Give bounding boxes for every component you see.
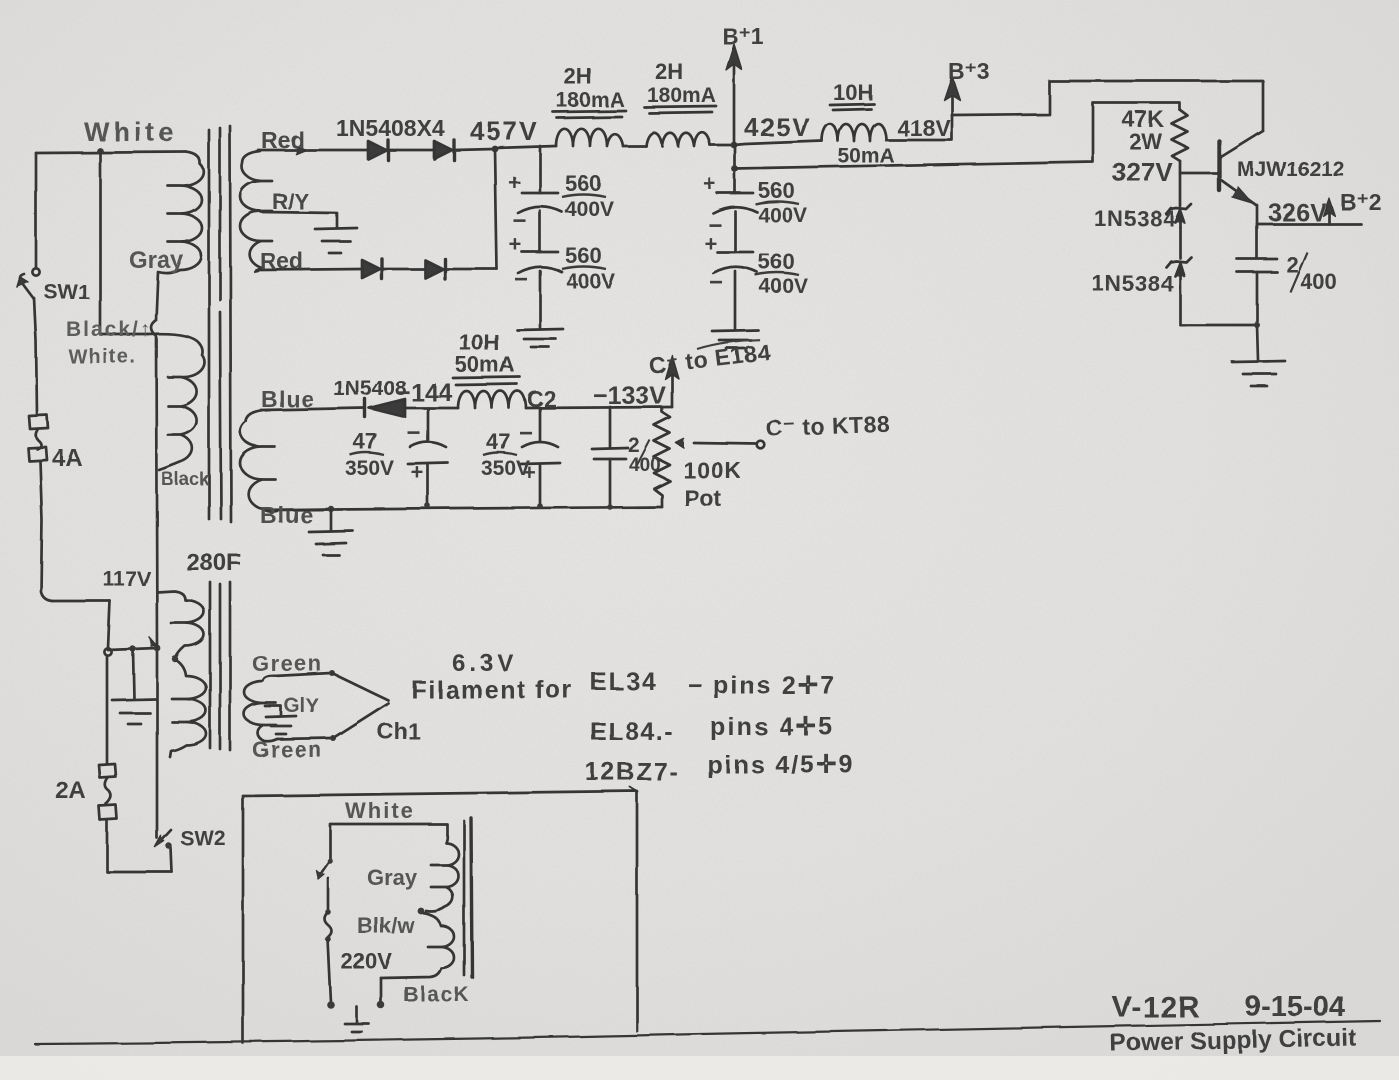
node: cap junctions on bias rails bbox=[425, 503, 431, 509]
svg-text:400V: 400V bbox=[759, 275, 808, 298]
svg-text:−133V: −133V bbox=[593, 382, 666, 410]
svg-text:GlY: GlY bbox=[284, 695, 319, 717]
svg-text:Black/↑: Black/↑ bbox=[66, 318, 152, 341]
svg-text:SW1: SW1 bbox=[44, 281, 90, 304]
svg-text:400V: 400V bbox=[565, 198, 614, 221]
node: junction cap/zener bbox=[1254, 322, 1260, 328]
svg-text:560: 560 bbox=[758, 249, 795, 274]
svg-text:Green: Green bbox=[252, 737, 323, 762]
svg-text:Red: Red bbox=[261, 127, 304, 153]
svg-text:327V: 327V bbox=[1112, 157, 1173, 187]
svg-text:50mA: 50mA bbox=[455, 352, 515, 377]
ground: first filter ground bbox=[517, 329, 563, 330]
ground: box ground bbox=[356, 1007, 359, 1023]
wire: bias bottom rail bbox=[267, 507, 662, 510]
svg-text:+: + bbox=[703, 171, 716, 196]
svg-text:V-12R: V-12R bbox=[1112, 991, 1200, 1024]
fuse: box fuse squiggle bbox=[325, 909, 331, 915]
svg-text:+: + bbox=[704, 231, 717, 256]
node: open terminal bbox=[104, 648, 111, 655]
svg-text:9-15-04: 9-15-04 bbox=[1245, 991, 1345, 1023]
wire: SW2 contact riser bbox=[171, 848, 172, 872]
capacitor C7 2/400 (bias) bbox=[609, 407, 612, 447]
wire: page bottom frame line bbox=[35, 1021, 1380, 1044]
svg-text:Gray: Gray bbox=[367, 865, 418, 890]
wire: cap string to ground bbox=[734, 271, 737, 329]
wire: R/Y center tap bbox=[261, 212, 337, 228]
winding: box primary lower (Blkw-Black) bbox=[381, 913, 454, 978]
wire: down to regulator ground bbox=[1257, 325, 1258, 360]
capacitor C3b 560/400V bottom bbox=[734, 211, 737, 252]
svg-text:−: − bbox=[514, 266, 528, 293]
node: 457V junction bbox=[492, 146, 499, 153]
ground: filament center tap ground bbox=[266, 716, 296, 717]
wire: down to plug circle bbox=[108, 601, 110, 648]
svg-text:BlacK: BlacK bbox=[403, 983, 470, 1006]
wire: bias rail bbox=[405, 407, 458, 410]
box: 220V wiring inset frame bbox=[243, 791, 637, 1043]
svg-text:6.3V: 6.3V bbox=[452, 650, 517, 677]
wire: box top wire White bbox=[330, 824, 447, 858]
svg-text:47: 47 bbox=[353, 429, 377, 454]
winding: box primary upper (White-Gray) bbox=[426, 835, 459, 912]
svg-text:4A: 4A bbox=[52, 445, 83, 472]
wire: resistor to base node bbox=[1179, 161, 1182, 206]
svg-text:B⁺1: B⁺1 bbox=[722, 23, 764, 49]
wire: G/Y center tap bbox=[265, 706, 281, 715]
switch: box switch contact bbox=[327, 858, 333, 864]
svg-text:pins 4✛5: pins 4✛5 bbox=[710, 713, 835, 741]
node: box right terminal bbox=[377, 1001, 385, 1009]
svg-text:560: 560 bbox=[758, 178, 795, 203]
wire: Black lead down bbox=[380, 978, 383, 1003]
svg-text:B⁺2: B⁺2 bbox=[1340, 189, 1382, 215]
svg-text:Blue: Blue bbox=[260, 502, 314, 528]
svg-text:−: − bbox=[513, 208, 527, 235]
wire: 117V horizontal bbox=[52, 600, 110, 603]
ground: second filter ground bbox=[712, 330, 758, 331]
wire: Blue upper lead bbox=[262, 408, 365, 410]
node B+2 arrow bbox=[1328, 208, 1331, 224]
potentiometer R2 100K bbox=[654, 407, 670, 507]
svg-text:Blue: Blue bbox=[261, 386, 315, 412]
svg-text:SW2: SW2 bbox=[180, 827, 226, 850]
svg-text:Red: Red bbox=[260, 248, 303, 274]
wire: zener bottom to emitter leg bbox=[1180, 292, 1257, 325]
wire: pot wiper from C- KT88 bbox=[694, 443, 757, 444]
wire: bias rail C2 to pot bbox=[526, 407, 672, 408]
transistor Q1 MJW16212 base bar bbox=[1217, 141, 1221, 190]
svg-text:Green: Green bbox=[252, 651, 323, 676]
svg-text:47: 47 bbox=[486, 429, 510, 454]
wire: fuse 2A to bottom rail bbox=[106, 820, 109, 871]
wire: switch to fuse bbox=[327, 878, 330, 910]
winding: bias secondary (Blue-Blue) bbox=[240, 410, 277, 512]
node: junction at 117V tap bbox=[154, 645, 161, 652]
wire: Red top lead to diodes bbox=[258, 149, 368, 152]
winding: primary upper (White-Gray) bbox=[156, 152, 204, 320]
wire: B+2 output line bbox=[1257, 223, 1361, 226]
svg-text:EL34: EL34 bbox=[590, 668, 658, 696]
svg-text:−: − bbox=[709, 269, 723, 296]
svg-text:White.: White. bbox=[68, 346, 137, 368]
svg-text:Blk/w: Blk/w bbox=[357, 913, 415, 938]
wire: chevron to Ch1 top bbox=[332, 673, 388, 700]
svg-text:560: 560 bbox=[565, 243, 602, 268]
inductor L3 10H 50mA bbox=[822, 124, 886, 141]
wire: bottom rail to SW2 bbox=[107, 871, 172, 874]
node: tap junction to regulator bbox=[732, 166, 739, 173]
svg-text:Pot: Pot bbox=[684, 485, 721, 511]
capacitor C3a 560/400V top bbox=[734, 145, 737, 193]
wire: White line from left rail to primary winding bbox=[36, 152, 186, 153]
svg-text:B⁺3: B⁺3 bbox=[948, 58, 990, 84]
wire: base connection bbox=[1180, 172, 1218, 175]
node: box left terminal bbox=[327, 1001, 335, 1009]
zener diode Z1 1N5384 bbox=[1170, 204, 1191, 209]
wire: to 425V node bbox=[710, 144, 734, 147]
winding: filament primary lower bbox=[170, 660, 206, 757]
svg-text:400V: 400V bbox=[566, 270, 615, 293]
svg-text:− pins 2✛7: − pins 2✛7 bbox=[688, 672, 837, 700]
ground: regulator ground bbox=[1232, 361, 1285, 362]
switch SW2 contact dot bbox=[166, 843, 172, 849]
wire: Green bottom lead bbox=[277, 738, 332, 739]
node: C- KT88 terminal bbox=[757, 441, 765, 449]
svg-text:180mA: 180mA bbox=[556, 89, 625, 112]
diode D2 1N5408 bbox=[434, 141, 452, 159]
svg-text:−: − bbox=[407, 420, 421, 447]
svg-text:2H: 2H bbox=[564, 64, 592, 89]
switch SW2 blade bbox=[159, 830, 171, 843]
svg-text:Power Supply Circuit: Power Supply Circuit bbox=[1110, 1024, 1357, 1057]
wire: gray/black vertical down to SW2 with junction bbox=[156, 650, 159, 838]
svg-text:2: 2 bbox=[1286, 252, 1298, 277]
winding: primary lower (BlackWhite-Black) bbox=[148, 334, 205, 470]
wire: Black/White horizontal to primary lower winding bbox=[100, 333, 148, 336]
svg-text:2A: 2A bbox=[55, 777, 86, 804]
svg-text:50mA: 50mA bbox=[838, 145, 895, 168]
wire: terminal down to fuse 2A bbox=[106, 656, 109, 763]
inductor L4 10H 50mA (bias) bbox=[458, 391, 526, 408]
svg-text:Filament for: Filament for bbox=[411, 676, 573, 704]
svg-text:pins 4/5✛9: pins 4/5✛9 bbox=[707, 751, 855, 779]
diode D3 1N5408 bbox=[362, 260, 380, 278]
node B+1 arrow bbox=[726, 44, 742, 70]
svg-text:350V: 350V bbox=[345, 457, 394, 480]
wire: 457V node down to lower diode output bbox=[495, 149, 497, 269]
svg-text:MJW16212: MJW16212 bbox=[1237, 158, 1344, 181]
svg-text:117V: 117V bbox=[103, 568, 151, 591]
inductor L2 2H 180mA bbox=[646, 132, 710, 146]
svg-text:Gray: Gray bbox=[129, 247, 184, 274]
transistor Q1 emitter with arrow bbox=[1221, 180, 1256, 205]
switch SW1 contact bbox=[32, 268, 39, 275]
svg-text:White: White bbox=[345, 798, 415, 823]
svg-text:400V: 400V bbox=[758, 204, 807, 227]
transformer T2 core bbox=[463, 821, 466, 975]
wire: Blue lower lead to bias rail bbox=[263, 509, 331, 510]
capacitor C5 47/350V bbox=[427, 408, 430, 441]
capacitor C1a 560/400V top bbox=[539, 146, 542, 193]
svg-text:560: 560 bbox=[565, 171, 602, 196]
transformer T1 core lower section bbox=[209, 582, 212, 748]
capacitor line bypass to ground bbox=[130, 646, 136, 652]
wire: SW1 to fuse F1 bbox=[34, 298, 37, 414]
fuse F1 4A body bbox=[29, 415, 48, 429]
ground: line filter ground bbox=[112, 699, 156, 700]
wire: long feed to 47K resistor bbox=[735, 103, 1180, 169]
svg-text:418V: 418V bbox=[897, 115, 951, 141]
capacitor C4 2/400 bbox=[1256, 224, 1259, 258]
switch SW1 blade bbox=[20, 274, 34, 299]
svg-text:457V: 457V bbox=[470, 116, 539, 146]
wire: between zeners bbox=[1179, 227, 1182, 258]
svg-text:+: + bbox=[508, 170, 521, 195]
winding: filament primary upper bbox=[157, 591, 204, 657]
svg-text:R/Y: R/Y bbox=[272, 189, 309, 214]
node: White junction bbox=[97, 148, 104, 155]
wire: 457V rail bbox=[495, 146, 556, 148]
svg-text:+: + bbox=[523, 460, 536, 485]
wire: Black/White vertical from White node bbox=[99, 151, 102, 334]
svg-text:425V: 425V bbox=[744, 112, 811, 142]
svg-text:100K: 100K bbox=[683, 457, 742, 483]
svg-text:2: 2 bbox=[628, 434, 640, 457]
wire: chevron to Ch1 bottom bbox=[333, 703, 388, 738]
node: 425V junction bbox=[731, 142, 738, 149]
wire: fuse 4A down to 117V corner bbox=[40, 461, 52, 601]
diode D5 1N5408 (bias, pointing left) bbox=[363, 399, 366, 417]
svg-text:280F: 280F bbox=[186, 549, 241, 576]
ground: R/Y center tap ground bbox=[315, 228, 357, 229]
svg-text:−144: −144 bbox=[396, 379, 452, 407]
node: bias ground tap bbox=[328, 506, 334, 512]
wire: B+3 branch going right and up to collector bbox=[952, 81, 1263, 131]
wire: emitter down to B+2 line bbox=[1256, 205, 1259, 224]
wire: 418V rail bbox=[886, 139, 951, 142]
node: filament primary tap bbox=[172, 656, 178, 662]
ground: bias ground bbox=[309, 531, 353, 532]
wire: Gray hop over Black/White bbox=[151, 320, 157, 648]
wire: left rail down to SW1 bbox=[35, 153, 38, 267]
svg-text:220V: 220V bbox=[341, 949, 393, 974]
svg-text:10H: 10H bbox=[833, 80, 873, 105]
svg-text:+: + bbox=[411, 460, 424, 485]
svg-text:Ch1: Ch1 bbox=[377, 718, 421, 744]
transformer T1 core bbox=[208, 130, 211, 519]
capacitor C1b 560/400V bottom bbox=[539, 211, 542, 252]
svg-text:1N5384: 1N5384 bbox=[1092, 271, 1174, 296]
diode D4 1N5408 bbox=[425, 260, 443, 278]
svg-text:12BZ7-: 12BZ7- bbox=[585, 758, 679, 786]
svg-text:180mA: 180mA bbox=[647, 84, 716, 107]
wire: B+1 riser bbox=[733, 66, 736, 145]
winding: HV secondary upper (Red / R-Y) bbox=[240, 151, 272, 272]
svg-text:1N5384: 1N5384 bbox=[1094, 206, 1176, 231]
wire: ground stem bbox=[330, 509, 333, 530]
diode D1 1N5408 bbox=[368, 141, 386, 159]
svg-text:2H: 2H bbox=[655, 59, 683, 84]
wire: Red bottom lead to diodes bbox=[258, 269, 362, 270]
fuse F2 2A body bbox=[99, 764, 116, 778]
svg-text:326V: 326V bbox=[1268, 199, 1327, 227]
zener diode Z2 1N5384 bbox=[1170, 257, 1191, 262]
svg-text:Black: Black bbox=[161, 469, 210, 489]
resistor R1 47K 2W bbox=[1172, 110, 1188, 161]
inductor L1 2H 180mA bbox=[556, 129, 623, 146]
svg-text:400: 400 bbox=[629, 455, 661, 476]
svg-text:EL84.-: EL84.- bbox=[590, 718, 674, 746]
wire: horizontal link terminal to black wire node bbox=[108, 648, 157, 650]
svg-text:2W: 2W bbox=[1129, 129, 1162, 154]
svg-text:1N5408X4: 1N5408X4 bbox=[336, 115, 445, 141]
transistor Q1 collector bbox=[1221, 131, 1263, 157]
svg-text:White: White bbox=[84, 117, 178, 147]
wire: fuse down to terminal bbox=[328, 939, 331, 1003]
wire: B+3 riser bbox=[951, 95, 954, 140]
wire: 425V rail to choke L3 bbox=[734, 141, 822, 145]
svg-text:C2: C2 bbox=[527, 386, 556, 412]
wire: Green top lead bbox=[274, 673, 331, 676]
wire: C- to EL84 riser bbox=[671, 372, 674, 407]
node: box winding tap bbox=[418, 908, 425, 915]
svg-text:−: − bbox=[519, 420, 533, 447]
wire: cap string to ground bbox=[539, 271, 542, 328]
svg-text:+: + bbox=[509, 232, 522, 257]
svg-text:400: 400 bbox=[1300, 269, 1337, 294]
svg-text:C⁻ to KT88: C⁻ to KT88 bbox=[765, 411, 890, 441]
winding: filament secondary 6.3V bbox=[244, 676, 277, 741]
wire: between chokes bbox=[623, 145, 646, 148]
capacitor C6 47/350V bbox=[539, 408, 542, 441]
node B+3 arrow bbox=[944, 76, 960, 100]
